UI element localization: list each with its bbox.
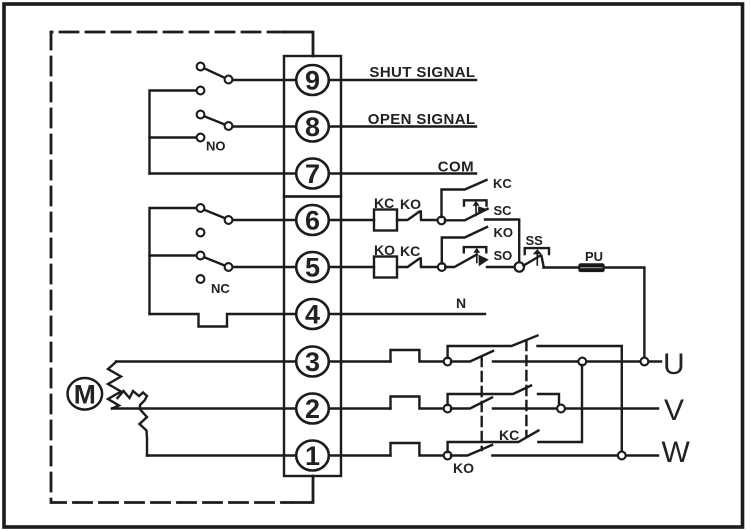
SS actuator arrow	[536, 253, 538, 266]
winding zigzag Z1	[108, 362, 121, 409]
svg-text:KC: KC	[400, 243, 420, 259]
svg-text:N: N	[456, 295, 466, 311]
svg-text:COM: COM	[438, 159, 474, 176]
svg-text:PU: PU	[585, 249, 603, 264]
switch S8 pivot contact	[197, 111, 205, 119]
terminal circle 5	[296, 252, 329, 282]
wire KC row2 rejoin	[538, 394, 559, 405]
KO contact row3	[451, 351, 493, 362]
svg-text:KC: KC	[493, 176, 512, 191]
wire row8 left	[232, 125, 297, 127]
node row2	[444, 405, 452, 413]
wire row4 N with plug notch	[150, 314, 486, 327]
junction node SS	[515, 262, 524, 271]
SO wedge	[479, 255, 489, 266]
terminal circle 6	[296, 205, 329, 235]
svg-text:NC: NC	[211, 281, 230, 296]
terminal circle 3	[296, 347, 329, 377]
SC actuator bracket	[464, 200, 487, 205]
SS switch arm	[524, 256, 541, 266]
SS switch drop	[542, 256, 544, 268]
switch S9 pivot contact	[197, 63, 205, 71]
terminal circle 2	[296, 394, 329, 424]
wire row5 left	[232, 266, 297, 268]
KC contactor box row6	[374, 210, 397, 231]
svg-text:5: 5	[305, 253, 320, 283]
NC group branch	[150, 254, 198, 256]
terminal strip box lower	[284, 197, 341, 477]
KC aux contact row5	[397, 259, 438, 268]
terminal circle 1	[296, 441, 329, 471]
KO limit switch upper branch row5	[442, 227, 487, 264]
KO contact row1	[451, 445, 492, 456]
winding zigzag Z3	[140, 411, 148, 456]
wire row2 to V	[493, 407, 658, 409]
svg-text:SO: SO	[494, 248, 513, 263]
wire row2 left	[112, 407, 391, 409]
KC linkage dashed	[525, 341, 527, 436]
svg-text:KO: KO	[400, 196, 421, 212]
wire row3 left	[116, 360, 391, 362]
SO actuator bracket	[464, 247, 487, 252]
switch S6 pivot contact	[197, 204, 205, 212]
KO contact row2	[451, 398, 492, 409]
NC open contact row6	[197, 229, 205, 237]
wire row3 to U	[493, 360, 661, 362]
wire row1 to W	[492, 454, 658, 456]
svg-text:KC: KC	[374, 195, 394, 211]
svg-text:4: 4	[305, 300, 320, 330]
wire row1 left	[147, 454, 391, 456]
motor M circle	[68, 378, 103, 410]
svg-text:NO: NO	[206, 139, 226, 154]
terminal circle 7	[296, 159, 329, 189]
svg-text:9: 9	[305, 66, 320, 96]
SS actuator bracket	[525, 248, 549, 254]
KO contactor box row5	[374, 257, 397, 278]
dashed enclosure rectangle	[51, 32, 292, 503]
svg-text:2: 2	[305, 394, 320, 424]
switch S8 arm	[204, 116, 226, 125]
wire KC row1 to U column	[538, 365, 582, 442]
switch S5 pivot contact	[197, 252, 205, 260]
switch S6 contact	[225, 216, 233, 224]
wire SC to vertical	[485, 220, 519, 264]
wire SS to fuse	[544, 266, 580, 268]
terminal circle 9	[296, 65, 329, 95]
KC branch row2	[448, 386, 531, 406]
SO contact arm	[445, 255, 477, 268]
row3 bump	[391, 350, 445, 362]
row2 bump	[391, 397, 445, 409]
wire row5 to box	[328, 266, 374, 268]
row1 bump	[391, 443, 445, 456]
NC group bus	[150, 208, 198, 314]
svg-text:KC: KC	[499, 427, 519, 443]
node row5	[438, 263, 446, 271]
node row1	[444, 452, 452, 460]
node U inner	[578, 358, 586, 366]
node row6	[438, 217, 446, 225]
switch S5 contact	[225, 263, 233, 271]
wire row9 left	[232, 79, 297, 81]
NO contact circle row9	[197, 87, 205, 95]
NC open contact row5	[197, 275, 205, 283]
wire KC row3 to W column	[538, 346, 622, 452]
node row3	[444, 358, 452, 366]
wire row8 right OPEN	[328, 125, 476, 127]
svg-text:7: 7	[305, 159, 320, 189]
terminal strip box upper	[284, 56, 341, 197]
KC branch row3	[448, 336, 538, 359]
svg-text:SS: SS	[526, 233, 544, 248]
svg-text:KO: KO	[494, 225, 514, 240]
switch S5 arm	[204, 257, 226, 266]
svg-text:V: V	[664, 394, 684, 427]
SC wedge	[478, 206, 489, 214]
svg-text:6: 6	[305, 206, 320, 236]
KC branch row1	[448, 431, 539, 453]
KO aux contact row6	[397, 212, 438, 221]
terminal circle 8	[296, 112, 329, 142]
switch S6 arm	[204, 210, 226, 219]
dashed enclosure solid top corner	[284, 32, 313, 56]
svg-text:M: M	[74, 379, 96, 409]
wire row7 COM	[150, 172, 477, 174]
fuse PU	[579, 264, 604, 271]
switch S9 contact	[225, 76, 233, 84]
switch S8 contact	[225, 122, 233, 130]
SC contact arm	[445, 209, 488, 221]
svg-text:SHUT SIGNAL: SHUT SIGNAL	[369, 64, 475, 81]
winding zigzag Z2	[118, 391, 148, 409]
svg-text:KO: KO	[374, 242, 395, 258]
svg-text:U: U	[663, 348, 685, 381]
NO group branch	[150, 136, 198, 138]
svg-text:KO: KO	[453, 460, 474, 476]
wire row9 right SHUT	[328, 79, 476, 81]
svg-text:3: 3	[305, 347, 320, 377]
wire row6 to box	[328, 219, 374, 221]
NO group bus	[150, 91, 201, 174]
dashed enclosure solid bottom corner	[294, 476, 313, 503]
KC limit switch upper branch row6	[442, 180, 487, 217]
wire fuse to U column	[604, 268, 644, 359]
wire SO to node	[487, 266, 515, 268]
node U terminal	[641, 358, 649, 366]
switch S9 arm	[204, 68, 226, 78]
node V	[557, 405, 565, 413]
svg-text:W: W	[662, 436, 691, 469]
KO linkage dashed	[481, 357, 483, 450]
svg-text:1: 1	[305, 441, 320, 471]
svg-text:SC: SC	[494, 203, 513, 218]
SC actuator arrow	[475, 204, 477, 216]
wire row6 left	[232, 219, 297, 221]
SO actuator arrow	[476, 251, 478, 263]
NO contact circle row8	[197, 134, 205, 142]
terminal circle 4	[296, 299, 329, 329]
node W	[618, 452, 626, 460]
svg-text:8: 8	[305, 112, 320, 142]
svg-text:OPEN SIGNAL: OPEN SIGNAL	[368, 111, 476, 128]
